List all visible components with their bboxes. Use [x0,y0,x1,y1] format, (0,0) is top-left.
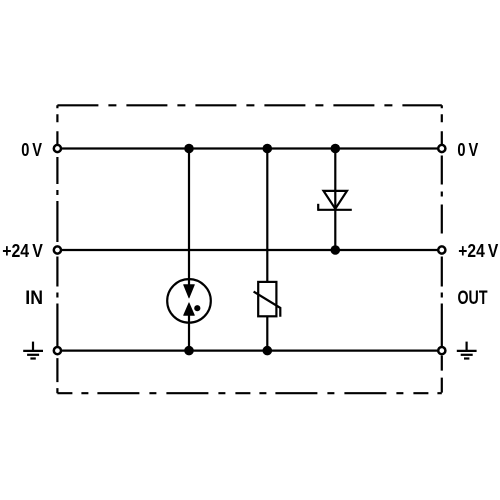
wire 0V rail [57,147,441,149]
terminal +24V OUT [438,246,445,253]
terminal +24V IN [54,246,61,253]
varistor [254,282,281,317]
wire ground rail [57,350,441,352]
wire GDT branch upper segment [188,149,190,286]
enclosure dash-dot border right [441,105,443,393]
svg-text:+24 V: +24 V [458,241,498,261]
svg-text:IN: IN [25,288,43,309]
wire diode branch [334,149,336,251]
terminal 0V OUT [438,145,445,152]
svg-text:+24 V: +24 V [2,241,43,261]
enclosure dash-dot border bottom [57,392,441,394]
ground symbol left [23,342,43,359]
junction 0V / varistor branch [263,144,273,154]
junction +24V / diode branch [331,245,341,255]
junction ground / varistor branch [263,346,273,356]
gas discharge tube [167,279,211,323]
suppressor diode [318,191,352,211]
wire varistor branch lower segment [266,316,268,350]
svg-text:0 V: 0 V [21,140,42,160]
junction ground / GDT branch [184,346,194,356]
terminal 0V IN [54,145,61,152]
wire GDT branch lower segment [188,315,190,351]
svg-text:0 V: 0 V [457,140,478,160]
junction 0V / diode branch [331,144,341,154]
enclosure dash-dot border top [57,104,441,106]
enclosure dash-dot border left [56,105,58,393]
ground symbol right [457,342,477,359]
terminal ground IN [54,347,61,354]
wire +24V rail [57,249,441,251]
wire varistor branch upper segment [266,149,268,283]
junction 0V / GDT branch [184,144,194,154]
svg-text:OUT: OUT [458,288,488,309]
terminal ground OUT [438,347,445,354]
